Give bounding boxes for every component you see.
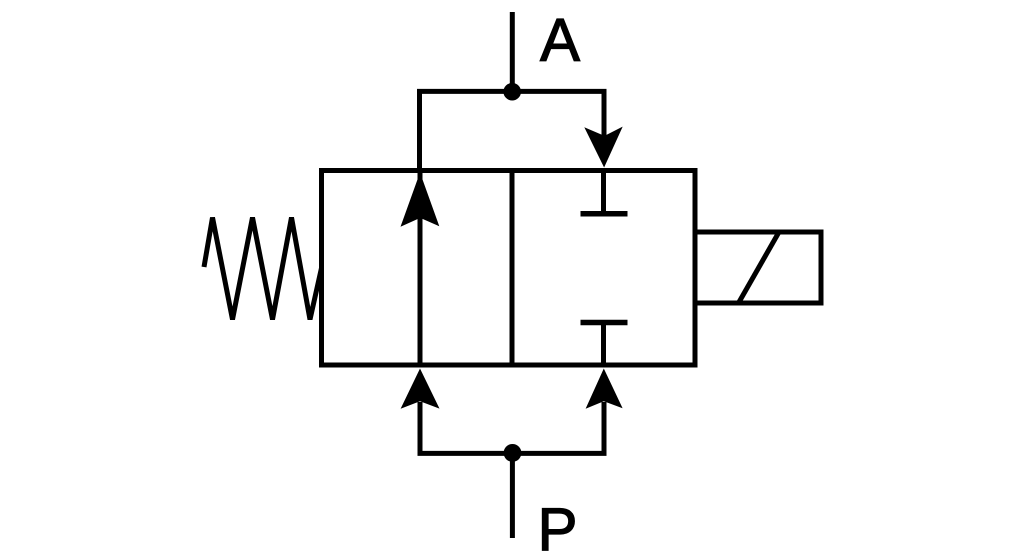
arrowhead: flow path arrow (up) in left position bbox=[401, 173, 440, 227]
arrowhead: flow from A into right-position blocked port (down) bbox=[584, 127, 622, 168]
wire: port A lead bbox=[510, 12, 515, 92]
arrowhead: flow from P into right valve port (up) bbox=[586, 369, 623, 409]
svg-text:A: A bbox=[540, 7, 580, 74]
flow path line in left position (P to A passage) bbox=[418, 171, 423, 366]
junction node A dot bbox=[503, 83, 521, 101]
svg-text:P: P bbox=[537, 496, 577, 559]
wire: port P lead bbox=[510, 453, 515, 538]
return spring (left actuator) bbox=[204, 218, 322, 320]
solenoid actuator box (right) bbox=[695, 232, 821, 303]
solenoid diagonal stroke bbox=[739, 232, 780, 303]
blocked port seat (top T) in right position: crossbar bbox=[581, 211, 628, 217]
wire: bottom manifold from node P to both valve ports bbox=[420, 402, 604, 453]
blocked port seat (bottom T) in right position: stem bbox=[601, 323, 606, 366]
valve body (2-position envelope) bbox=[322, 171, 696, 366]
wire: top manifold from node A to both valve ports bbox=[420, 91, 605, 170]
junction node P dot bbox=[504, 444, 522, 462]
arrowhead: flow from P into left valve port (up) bbox=[401, 369, 440, 409]
blocked port seat (bottom T) in right position: crossbar bbox=[581, 320, 628, 326]
blocked port seat (top T) in right position: stem bbox=[601, 171, 606, 214]
position divider line bbox=[510, 171, 515, 366]
